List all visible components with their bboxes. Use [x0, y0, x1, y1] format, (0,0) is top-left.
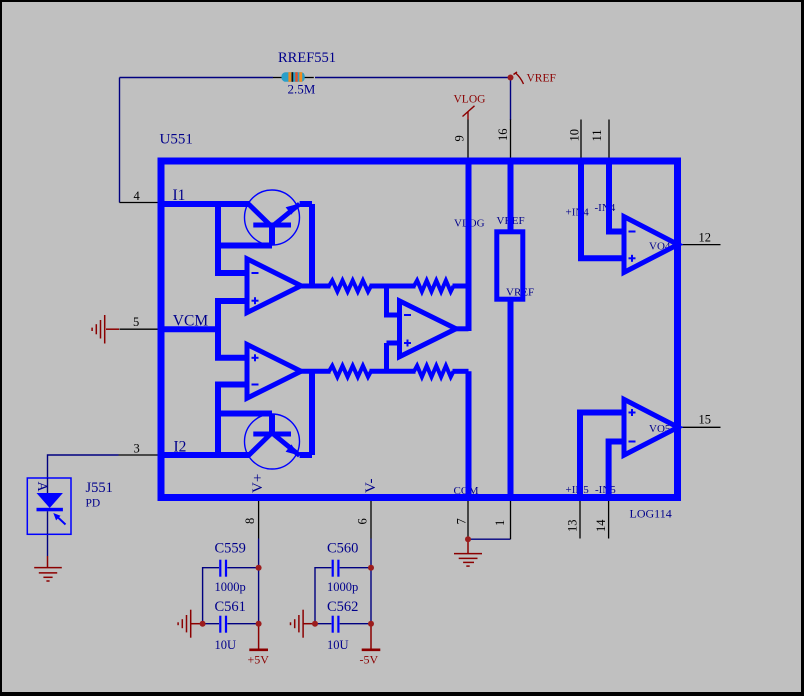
- svg-text:10U: 10U: [327, 638, 349, 652]
- pin 7: [467, 501, 469, 539]
- ground (power gnd) at C562: [291, 610, 316, 638]
- svg-text:RREF551: RREF551: [278, 50, 336, 66]
- transistor Q1: [245, 190, 300, 245]
- wire op-amp C minus branch: [387, 286, 401, 315]
- pin 10: [580, 120, 582, 158]
- wire RREF551 left segment: [120, 77, 274, 79]
- capacitor C562: [333, 616, 339, 633]
- capacitor C561: [220, 616, 226, 633]
- svg-text:10U: 10U: [215, 638, 237, 652]
- pin 12: [681, 244, 721, 246]
- wire I2 branch up to op-amp B minus: [215, 385, 221, 456]
- junction node C559/pin8: [256, 565, 262, 571]
- svg-text:1000p: 1000p: [327, 580, 358, 594]
- wire Q2 link up to op-amp B output: [309, 371, 315, 455]
- svg-text:V-: V-: [363, 479, 379, 493]
- resistor R1: [329, 280, 371, 291]
- wire COM vertical: [466, 371, 472, 498]
- junction node C561 left: [200, 621, 206, 627]
- capacitor C560: [333, 560, 339, 577]
- svg-text:6: 6: [356, 518, 370, 524]
- svg-text:1: 1: [493, 520, 507, 526]
- wire VCM vertical: [215, 301, 221, 358]
- wire Q2 base riser: [269, 414, 275, 435]
- resistor RREF551 body: [282, 72, 305, 82]
- svg-text:C560: C560: [327, 541, 358, 557]
- wire Q1 base drop: [269, 225, 275, 246]
- feedback resistor rows: [301, 280, 469, 377]
- svg-text:U551: U551: [160, 132, 193, 148]
- svg-text:VREF: VREF: [527, 73, 556, 85]
- wire pin 14 to op-amp VO5 minus: [609, 442, 624, 499]
- photodiode J551: [27, 478, 71, 534]
- junction node C560/pin6: [368, 565, 374, 571]
- svg-text:-5V: -5V: [360, 653, 379, 667]
- svg-text:PD: PD: [86, 498, 101, 510]
- wire Q1 link down to op-amp A output: [309, 204, 315, 286]
- wire pin 8 to C559 junction: [258, 539, 260, 568]
- wire VREF node down to pin 16: [510, 78, 512, 121]
- wire VCM internal: [160, 326, 218, 332]
- wire C561 right plate to junction: [227, 623, 258, 625]
- svg-text:A: A: [34, 482, 49, 493]
- junction node C562 left: [312, 621, 318, 627]
- svg-text:2.5M: 2.5M: [288, 82, 316, 97]
- svg-text:C562: C562: [327, 599, 358, 615]
- junction node C561/+5V: [256, 621, 262, 627]
- ground (power gnd) at C561: [178, 610, 203, 638]
- ground (earth) at COM pins 7/1: [454, 541, 482, 566]
- junction node pin7: [465, 536, 471, 542]
- pin 6: [370, 501, 372, 539]
- svg-text:J551: J551: [86, 480, 113, 496]
- wire C560-C562 right vertical: [370, 568, 372, 624]
- svg-text:I1: I1: [173, 187, 186, 204]
- op-amp B (bottom-left internal): [247, 344, 301, 398]
- net tick VLOG: [463, 106, 475, 120]
- svg-text:VCM: VCM: [173, 313, 209, 330]
- resistor VREF (internal): [497, 232, 523, 299]
- svg-text:+5V: +5V: [248, 653, 270, 667]
- pin 11: [608, 120, 610, 158]
- svg-text:16: 16: [496, 129, 510, 142]
- svg-text:10: 10: [568, 129, 582, 142]
- ground (earth) below photodiode: [34, 556, 62, 581]
- op-amp U551 body rectangle: [161, 161, 678, 498]
- wire pin 13 to op-amp VO5 plus: [580, 413, 624, 499]
- svg-text:5: 5: [133, 315, 139, 329]
- svg-text:11: 11: [590, 129, 604, 141]
- wire pin7 junction to pin 1: [468, 538, 511, 540]
- resistor R4: [414, 366, 454, 377]
- wire op-amp A plus stub: [215, 298, 247, 304]
- wire transistor Q2 loop horizontal: [215, 411, 272, 417]
- power +5V bar: [249, 624, 268, 650]
- svg-text:I2: I2: [174, 439, 187, 456]
- pin 5: [120, 328, 158, 330]
- svg-text:+IN4: +IN4: [566, 207, 590, 219]
- wire I2 internal: [160, 452, 250, 458]
- wire op-amp B plus stub: [215, 355, 247, 361]
- wire C562 right plate to junction: [340, 623, 371, 625]
- svg-text:4: 4: [134, 189, 141, 203]
- op-amp VO5: [624, 399, 678, 455]
- wire VLOG vertical: [466, 160, 472, 331]
- transistor Q2: [245, 414, 300, 469]
- wire photodiode cathode to ground: [47, 534, 49, 556]
- svg-text:8: 8: [243, 518, 257, 524]
- pin 13: [579, 501, 581, 539]
- pin 14: [608, 501, 610, 539]
- resistor R3: [329, 366, 371, 377]
- wire Q2 emitter right link: [300, 452, 312, 458]
- wire I1 branch down to op-amp A minus: [215, 204, 221, 273]
- wire pin 10 to op-amp VO4 plus: [581, 160, 624, 258]
- wire op-amp C output: [456, 326, 469, 331]
- wire pin 16 to VREF resistor: [508, 160, 514, 232]
- svg-text:-IN4: -IN4: [595, 202, 616, 214]
- pin 3: [119, 454, 158, 456]
- pin 16: [510, 120, 512, 158]
- op-amp C (middle internal): [400, 301, 457, 357]
- junction node C562/-5V: [368, 621, 374, 627]
- wire op-amp B minus stub: [215, 382, 247, 388]
- wire pin 6 to C560 junction: [370, 539, 372, 568]
- svg-text:9: 9: [453, 135, 467, 141]
- wire from RREF551 down to pin 4: [119, 78, 121, 203]
- wire C560 right plate to junction: [340, 567, 371, 569]
- svg-text:12: 12: [699, 231, 712, 245]
- svg-text:3: 3: [134, 442, 140, 456]
- wire C559 right plate to junction: [227, 567, 258, 569]
- wire Q1 emitter to right link: [300, 201, 312, 207]
- wire C559-C561 right vertical: [258, 568, 260, 624]
- svg-text:VLOG: VLOG: [454, 94, 486, 106]
- wire pin 11 to op-amp VO4 minus: [609, 160, 624, 232]
- svg-text:15: 15: [699, 413, 712, 427]
- resistor R2: [414, 280, 454, 291]
- pin 1: [510, 501, 512, 539]
- wire op-amp B output row: [301, 369, 469, 374]
- op-amp VO4: [624, 217, 678, 273]
- resistor RREF551 leads: [273, 77, 282, 79]
- junction node VREF: [508, 75, 514, 81]
- wire op-amp A output row: [301, 284, 469, 289]
- svg-text:14: 14: [594, 519, 608, 532]
- power -5V bar: [362, 624, 381, 650]
- wire C559 loop: [203, 568, 219, 624]
- svg-text:C561: C561: [215, 599, 246, 615]
- svg-text:C559: C559: [215, 541, 246, 557]
- op-amp A (top-left internal): [247, 259, 301, 313]
- wire transistor Q1 loop horizontal: [215, 243, 272, 249]
- svg-text:13: 13: [566, 520, 580, 533]
- pin 15: [681, 426, 721, 428]
- svg-text:V+: V+: [250, 474, 266, 493]
- pin 8: [258, 501, 260, 539]
- wire RREF551 right segment: [315, 77, 511, 79]
- wire C560 loop: [315, 568, 331, 624]
- ground (power gnd) at VCM pin 5: [92, 315, 119, 344]
- wire photodiode to pin 3: [48, 455, 119, 478]
- wire op-amp C plus branch: [387, 343, 401, 371]
- pin 4: [120, 202, 158, 204]
- svg-text:7: 7: [455, 518, 469, 524]
- capacitor C559: [220, 560, 226, 577]
- net tick VREF: [514, 72, 524, 84]
- internal thick blue wiring: [160, 160, 624, 498]
- svg-text:1000p: 1000p: [215, 580, 246, 594]
- svg-text:LOG114: LOG114: [630, 507, 672, 521]
- pin 9: [467, 120, 469, 158]
- wire op-amp A minus stub: [215, 270, 247, 276]
- wire I1 internal: [160, 201, 250, 207]
- wire VREF resistor to pin 1: [508, 299, 514, 498]
